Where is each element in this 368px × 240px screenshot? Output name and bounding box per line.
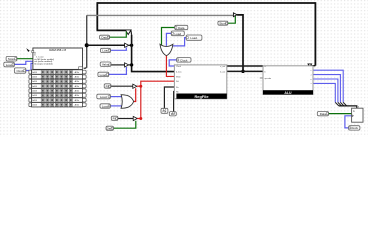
svg-text:0x1B: 0x1B	[32, 72, 37, 74]
pin Clock6	[349, 126, 360, 131]
pin Value1	[100, 62, 111, 67]
node red dot 1	[139, 85, 142, 88]
svg-text:Clock: Clock	[16, 69, 24, 73]
svg-text:RegFile: RegFile	[194, 94, 209, 99]
svg-text:ALU: ALU	[284, 91, 292, 95]
pin Store1	[6, 56, 17, 61]
wire B1 out	[129, 44, 132, 46]
pin Rb1	[169, 112, 176, 117]
wire U2 to bus	[130, 30, 133, 35]
svg-text:Load.: Load.	[190, 36, 198, 40]
register U7	[352, 106, 363, 122]
svg-text:Clock: Clock	[176, 66, 181, 68]
pin Data1	[100, 35, 110, 39]
wire Load4 to OR2 in2	[110, 105, 122, 107]
wire B4 out red	[137, 118, 141, 120]
wire gray RAM-out top run	[87, 14, 234, 16]
wire B2 out	[129, 64, 132, 66]
cursor mark	[26, 48, 30, 52]
pin squares	[12, 22, 351, 129]
wire red select to RegFile	[141, 81, 175, 86]
wire bus to ALU top	[311, 65, 315, 67]
wire flag N	[313, 79, 338, 102]
node right bus dot	[241, 70, 244, 73]
wire Clock6 blue to register	[345, 116, 352, 128]
pin Load6	[186, 35, 202, 40]
or-gate OR1 pointing down	[160, 44, 173, 56]
wire B3 out red	[137, 85, 141, 87]
pin Load5	[171, 31, 184, 36]
svg-text:n: n	[310, 79, 311, 81]
svg-text:Load: Load	[102, 104, 109, 108]
buffer B1 tri-state	[125, 43, 129, 47]
wire RAM-out to buffer B1	[87, 44, 125, 46]
pin Data4	[317, 112, 328, 117]
svg-text:Load.: Load.	[100, 73, 108, 77]
wire b_out to ALU	[227, 70, 263, 72]
svg-text:ld (output enabled): ld (output enabled)	[34, 62, 53, 65]
pin Data3	[175, 25, 188, 30]
wire Rb input	[173, 92, 176, 112]
pin Load0	[4, 62, 15, 67]
node RAM-out junction	[85, 43, 89, 47]
svg-text:Store: Store	[8, 57, 16, 61]
wire Value to B2	[111, 64, 125, 66]
buffer B4 tri-state	[133, 116, 137, 120]
wire Data4 green to register	[329, 113, 352, 115]
node bus dot 2	[130, 63, 133, 66]
svg-text:a_out: a_out	[220, 65, 225, 68]
wire bus to hook U2	[97, 29, 126, 31]
wire Store1 green	[17, 58, 33, 60]
wire flag C	[313, 70, 343, 102]
wire Load0 blue	[14, 61, 33, 64]
wire Rd to B4	[118, 118, 133, 120]
wire top bus horizontal	[97, 2, 315, 4]
wire OR1 output red to RegFile	[166, 56, 174, 77]
wire Data2 enable green	[114, 121, 136, 129]
wire top bus right drop	[314, 2, 316, 65]
buffer U4 hook ALU top	[308, 64, 312, 67]
svg-text:d_bus: d_bus	[176, 72, 181, 74]
wire flag Z	[313, 75, 340, 103]
svg-text:Load.: Load.	[100, 95, 108, 99]
pin Ra0	[161, 108, 168, 113]
ALU U6	[263, 66, 313, 95]
wire Data3 green to OR1	[162, 28, 175, 46]
pin Load4	[100, 104, 110, 109]
svg-text:Clock: Clock	[350, 126, 358, 130]
svg-text:c: c	[311, 70, 312, 72]
pin Rb0	[104, 84, 111, 89]
buffer U3 hook	[233, 13, 237, 17]
wire Load6 blue to OR1	[172, 38, 186, 46]
wire Ra input	[164, 87, 174, 108]
wire Load5 blue to OR1	[166, 33, 171, 46]
svg-text:RAM 256 x 8: RAM 256 x 8	[49, 48, 66, 52]
buffer B3 tri-state	[133, 84, 137, 88]
pin Rd0	[111, 116, 118, 120]
RegFile U5	[174, 65, 226, 99]
buffer U2 hook top-left	[125, 30, 131, 35]
node red dot 2	[139, 117, 142, 120]
svg-text:z: z	[311, 74, 312, 76]
pin Clock0	[14, 68, 26, 73]
wire Data1 enable green	[110, 32, 127, 38]
svg-text:v: v	[311, 83, 312, 85]
wire Load1 enable blue	[111, 47, 127, 50]
wire top bus left drop	[96, 2, 98, 30]
wire Clock5 blue to RegFile	[169, 60, 176, 66]
splitter legs	[335, 102, 346, 106]
wire Load2 enable blue	[109, 67, 127, 74]
svg-text:Load: Load	[174, 32, 181, 36]
svg-text:opcode: opcode	[265, 78, 272, 80]
svg-text:Data: Data	[320, 112, 327, 116]
svg-text:Data: Data	[178, 26, 185, 30]
wire splitter spine	[339, 106, 357, 108]
label boxes	[4, 21, 360, 130]
wire Rb to B3	[111, 85, 133, 87]
node bus dot 1	[130, 44, 133, 47]
pin Load2	[98, 72, 109, 77]
or-gate OR2	[121, 95, 134, 109]
RAM U1 body	[32, 48, 83, 70]
wire right bus	[237, 15, 243, 71]
wire Clock0 blue	[26, 63, 33, 70]
pin Load1	[101, 48, 111, 52]
svg-text:b_out: b_out	[220, 70, 225, 73]
wire a_out to ALU	[227, 65, 263, 67]
wire red vertical link	[140, 86, 142, 118]
pin Load3	[97, 94, 111, 99]
svg-text:Clock: Clock	[180, 58, 188, 62]
wire flag V	[313, 83, 335, 102]
background grid	[0, 0, 368, 137]
wire OR2 output red	[134, 88, 136, 101]
svg-text:Load: Load	[6, 63, 13, 67]
wire Store2 green	[228, 16, 235, 23]
wire RAM-out vertical	[84, 15, 87, 68]
wire left main bus vertical	[132, 35, 175, 72]
wire Load3 to OR2 in1	[110, 96, 122, 98]
RAM memory rows	[29, 70, 86, 107]
pin Data2	[106, 126, 114, 130]
ALU opcode stub	[260, 77, 263, 79]
pin Store2	[218, 21, 228, 25]
buffer B2 tri-state	[125, 63, 129, 67]
pin Clock5	[177, 58, 191, 63]
svg-text:Rd: Rd	[176, 81, 179, 83]
